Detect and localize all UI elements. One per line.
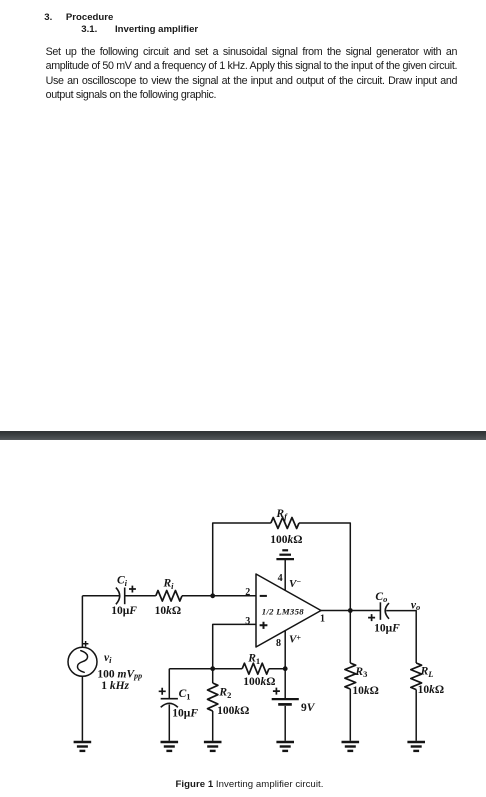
resistor R2	[208, 683, 218, 711]
source sine glyph	[77, 651, 87, 673]
ground C1	[161, 741, 179, 743]
svg-text:9V: 9V	[301, 702, 316, 714]
plus sign C1	[159, 688, 166, 695]
wire feedback left vertical and top left	[213, 523, 271, 596]
ground battery	[276, 741, 294, 743]
svg-text:Rf: Rf	[275, 508, 288, 521]
resistor Rf	[271, 518, 299, 529]
plus sign battery	[273, 688, 280, 695]
capacitor Co curved plate	[385, 603, 389, 619]
resistor R2 stub top	[212, 669, 214, 683]
capacitor Ci curved plate	[116, 588, 120, 605]
svg-text:100kΩ: 100kΩ	[217, 705, 249, 717]
wire left vertical to source	[81, 596, 83, 648]
node junction output	[348, 608, 353, 613]
op-amp minus symbol	[260, 595, 267, 597]
svg-text:10kΩ: 10kΩ	[155, 605, 181, 617]
wire Ci to Ri	[125, 595, 156, 597]
svg-text:10μF: 10μF	[111, 605, 137, 617]
caption	[176, 779, 324, 790]
pin8 stem	[284, 631, 286, 669]
svg-text:1 kHz: 1 kHz	[101, 680, 129, 692]
svg-text:Ri: Ri	[163, 578, 175, 591]
resistor R3	[345, 663, 356, 689]
capacitor Ci straight plate	[124, 588, 126, 605]
wire R3 to ground	[349, 689, 351, 741]
svg-text:100kΩ: 100kΩ	[270, 534, 302, 546]
ground R2	[204, 741, 222, 743]
capacitor C1 straight plate	[161, 698, 178, 700]
wire top right and feedback right vertical	[299, 523, 350, 611]
op-amp U1 triangle	[256, 574, 321, 647]
svg-text:10kΩ: 10kΩ	[418, 684, 444, 696]
svg-text:10kΩ: 10kΩ	[352, 685, 378, 697]
wire C1 to ground	[168, 705, 170, 741]
svg-text:C1: C1	[179, 688, 191, 701]
source vi circle	[68, 647, 97, 676]
node junction rail left	[210, 666, 215, 671]
battery V1 stem top	[284, 669, 286, 698]
heading 3. Procedure	[44, 12, 52, 24]
svg-text:RL: RL	[420, 666, 434, 679]
svg-text:vo: vo	[411, 599, 420, 612]
wire source to ground	[81, 676, 83, 741]
svg-text:V+: V+	[289, 634, 301, 646]
wire input left segment	[82, 595, 119, 597]
svg-text:R1: R1	[247, 653, 260, 666]
svg-text:Co: Co	[375, 591, 387, 604]
plus sign Co	[368, 614, 375, 621]
resistor R1	[242, 663, 269, 674]
wire RL to ground	[415, 690, 417, 741]
svg-text:10μF: 10μF	[172, 708, 198, 720]
resistor RL	[411, 663, 422, 690]
op-amp plus symbol	[260, 622, 268, 629]
capacitor Co straight plate	[379, 602, 381, 620]
svg-text:100kΩ: 100kΩ	[243, 676, 275, 688]
svg-text:4: 4	[278, 573, 283, 584]
wire R1 to battery node	[269, 668, 285, 670]
svg-text:vi: vi	[104, 652, 112, 665]
node junction battery	[283, 666, 288, 671]
svg-text:R3: R3	[354, 666, 367, 679]
svg-text:1/2 LM358: 1/2 LM358	[262, 606, 304, 616]
ground RL	[407, 741, 425, 743]
pin4 stem	[284, 559, 286, 590]
wire battery to ground	[284, 706, 286, 741]
svg-text:R2: R2	[218, 687, 231, 700]
plus sign Ci	[129, 586, 136, 593]
ground pin4 inverted	[282, 549, 288, 551]
battery short plate	[278, 703, 292, 706]
plus sign source	[83, 641, 89, 647]
capacitor C1 curved plate	[161, 703, 178, 707]
wire Co to corner and vo vertical	[386, 611, 416, 663]
paragraph	[46, 45, 458, 59]
wire op-amp output	[321, 610, 380, 612]
node junction pin2	[210, 593, 215, 598]
svg-text:100 mVpp: 100 mVpp	[97, 668, 142, 680]
capacitor C1 stub	[168, 669, 170, 698]
svg-text:1: 1	[320, 614, 325, 625]
svg-text:10μF: 10μF	[374, 622, 400, 634]
wire Ri to op-amp pin2	[182, 595, 256, 597]
ground R3	[342, 741, 360, 743]
svg-text:3: 3	[245, 616, 250, 627]
svg-text:V−: V−	[289, 577, 301, 590]
svg-text:2: 2	[245, 587, 250, 598]
svg-text:Ci: Ci	[117, 575, 128, 588]
wire pin3 horizontal and vertical	[213, 624, 256, 668]
resistor Ri	[156, 591, 182, 602]
divider bar	[0, 431, 486, 441]
wire R2 to ground	[212, 711, 214, 741]
wire rail C1 to R1	[169, 668, 242, 670]
svg-text:8: 8	[276, 638, 281, 649]
ground source	[74, 741, 92, 743]
heading 3.1 Inverting amplifier	[81, 24, 97, 36]
battery long plate	[272, 698, 299, 700]
wire output node to R3	[349, 611, 351, 664]
